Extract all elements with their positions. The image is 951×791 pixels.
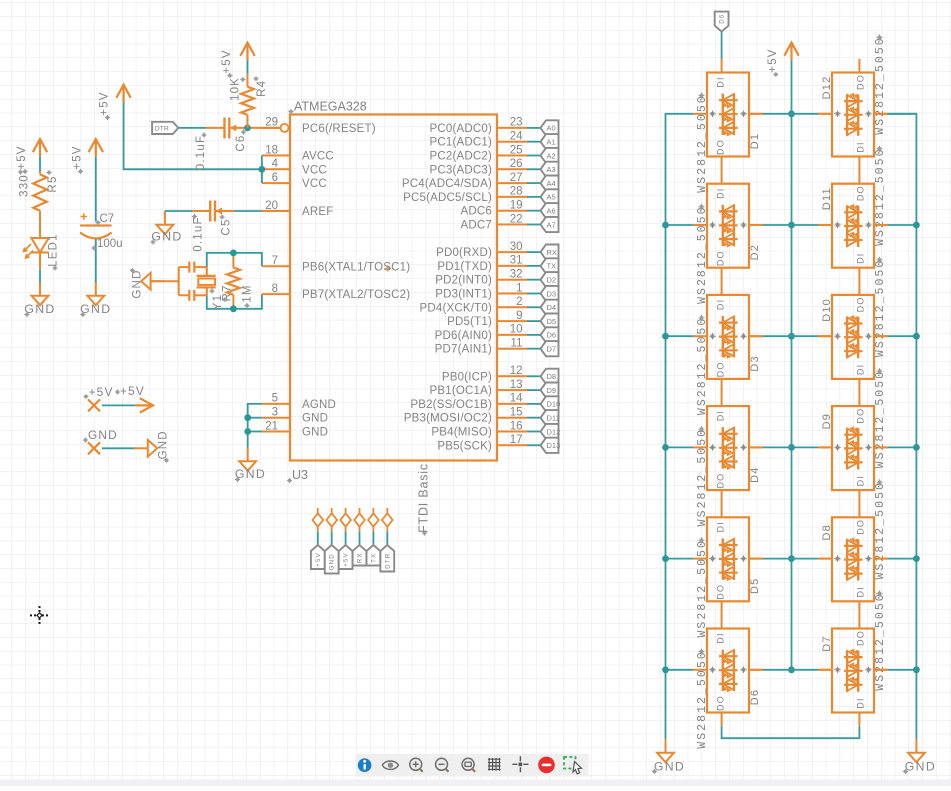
svg-text:A0: A0 xyxy=(547,124,556,133)
svg-text:2: 2 xyxy=(516,296,522,308)
svg-text:TX: TX xyxy=(370,553,377,563)
svg-text:DI: DI xyxy=(715,410,725,421)
svg-text:+5V: +5V xyxy=(99,91,111,115)
svg-text:+5V: +5V xyxy=(72,145,84,169)
svg-text:+5V: +5V xyxy=(16,145,28,169)
svg-text:ADC7: ADC7 xyxy=(461,220,492,232)
svg-text:D6: D6 xyxy=(547,331,557,340)
svg-text:GND: GND xyxy=(151,230,182,244)
svg-text:31: 31 xyxy=(510,255,523,267)
svg-text:GND: GND xyxy=(80,302,111,316)
svg-text:9: 9 xyxy=(516,310,522,322)
svg-text:11: 11 xyxy=(511,338,523,350)
svg-text:VCC: VCC xyxy=(302,164,327,176)
svg-text:DO: DO xyxy=(715,250,725,266)
svg-text:DO: DO xyxy=(855,630,865,646)
svg-text:WS2812_5050: WS2812_5050 xyxy=(874,259,887,357)
svg-text:D13: D13 xyxy=(547,441,561,450)
svg-text:PB0(ICP): PB0(ICP) xyxy=(442,371,492,383)
svg-text:D2: D2 xyxy=(547,276,557,285)
svg-text:GND: GND xyxy=(329,553,336,570)
svg-text:D3: D3 xyxy=(547,289,557,298)
svg-text:A1: A1 xyxy=(547,138,556,147)
svg-text:WS2812_5050: WS2812_5050 xyxy=(696,650,709,748)
svg-text:14: 14 xyxy=(510,393,523,405)
svg-text:D11: D11 xyxy=(821,187,833,210)
svg-text:PD0(RXD): PD0(RXD) xyxy=(436,247,492,259)
svg-text:DI: DI xyxy=(855,252,865,263)
svg-text:A6: A6 xyxy=(547,207,556,216)
svg-text:20: 20 xyxy=(265,200,278,212)
svg-text:C5: C5 xyxy=(220,218,232,235)
svg-text:AVCC: AVCC xyxy=(302,151,334,163)
svg-text:DO: DO xyxy=(855,74,865,90)
svg-text:A4: A4 xyxy=(547,179,556,188)
svg-text:DTR: DTR xyxy=(155,126,169,133)
svg-text:DO: DO xyxy=(715,361,725,377)
svg-text:PC3(ADC3): PC3(ADC3) xyxy=(429,164,492,176)
svg-text:17: 17 xyxy=(510,434,523,446)
svg-text:RX: RX xyxy=(547,248,557,257)
svg-text:LED1: LED1 xyxy=(48,233,60,267)
svg-text:100u: 100u xyxy=(97,238,123,250)
svg-text:D6: D6 xyxy=(719,13,726,23)
svg-text:DI: DI xyxy=(855,364,865,375)
svg-text:R4: R4 xyxy=(256,80,268,97)
svg-text:PB5(SCK): PB5(SCK) xyxy=(437,440,492,452)
svg-text:D10: D10 xyxy=(821,298,833,322)
svg-text:A3: A3 xyxy=(547,165,556,174)
svg-text:ATMEGA328: ATMEGA328 xyxy=(294,100,367,114)
svg-text:330: 330 xyxy=(19,174,31,197)
svg-text:WS2812_5050: WS2812_5050 xyxy=(696,539,709,637)
svg-text:12: 12 xyxy=(510,365,523,377)
svg-text:PC5(ADC5/SCL): PC5(ADC5/SCL) xyxy=(403,192,492,204)
svg-text:DO: DO xyxy=(715,473,725,489)
svg-text:WS2812_5050: WS2812_5050 xyxy=(696,205,709,303)
svg-text:DO: DO xyxy=(855,185,865,201)
svg-text:19: 19 xyxy=(510,200,523,212)
svg-text:30: 30 xyxy=(510,241,523,253)
svg-text:D12: D12 xyxy=(821,76,833,100)
svg-text:WS2812_5050: WS2812_5050 xyxy=(874,481,887,579)
svg-text:D11: D11 xyxy=(547,414,560,423)
svg-text:D1: D1 xyxy=(749,133,761,149)
svg-text:A7: A7 xyxy=(547,220,556,229)
svg-text:27: 27 xyxy=(510,172,523,184)
svg-text:DI: DI xyxy=(715,299,725,310)
svg-text:AREF: AREF xyxy=(302,206,333,218)
svg-text:A5: A5 xyxy=(547,193,556,202)
svg-text:TX: TX xyxy=(547,262,557,271)
svg-text:C7: C7 xyxy=(100,213,115,225)
svg-text:DI: DI xyxy=(715,521,725,532)
svg-text:PB7(XTAL2/TOSC2): PB7(XTAL2/TOSC2) xyxy=(302,289,410,301)
svg-text:DI: DI xyxy=(855,586,865,597)
svg-text:10: 10 xyxy=(510,324,523,336)
svg-text:PD4(XCK/T0): PD4(XCK/T0) xyxy=(420,302,493,314)
svg-text:3: 3 xyxy=(272,407,278,419)
svg-text:C6: C6 xyxy=(235,134,247,151)
svg-text:PB6(XTAL1/TOSC1): PB6(XTAL1/TOSC1) xyxy=(302,261,410,273)
svg-text:D2: D2 xyxy=(749,244,761,260)
svg-text:PD7(AIN1): PD7(AIN1) xyxy=(435,344,492,356)
svg-text:WS2812_5050: WS2812_5050 xyxy=(874,592,887,690)
svg-text:7: 7 xyxy=(272,255,278,267)
svg-text:DO: DO xyxy=(855,296,865,312)
svg-text:GND: GND xyxy=(302,413,328,425)
svg-text:D5: D5 xyxy=(547,317,557,326)
svg-text:28: 28 xyxy=(510,186,523,198)
svg-text:13: 13 xyxy=(510,379,523,391)
svg-text:RX: RX xyxy=(356,552,363,563)
svg-text:PB2(SS/OC1B): PB2(SS/OC1B) xyxy=(410,399,492,411)
svg-text:PB3(MOSI/OC2): PB3(MOSI/OC2) xyxy=(404,413,492,425)
svg-text:GND: GND xyxy=(235,467,266,481)
svg-text:WS2812_5050: WS2812_5050 xyxy=(874,147,887,245)
svg-text:DI: DI xyxy=(715,632,725,643)
svg-text:25: 25 xyxy=(510,144,523,156)
svg-text:1: 1 xyxy=(516,282,522,294)
svg-text:D6: D6 xyxy=(749,689,761,705)
svg-text:DO: DO xyxy=(715,695,725,711)
svg-text:15: 15 xyxy=(510,407,523,419)
svg-text:WS2812_5050: WS2812_5050 xyxy=(696,428,709,526)
svg-text:D8: D8 xyxy=(821,524,833,540)
svg-text:D9: D9 xyxy=(821,413,833,429)
svg-text:GND: GND xyxy=(905,759,936,773)
svg-text:ADC6: ADC6 xyxy=(461,206,492,218)
svg-text:D4: D4 xyxy=(749,466,761,482)
svg-text:GND: GND xyxy=(158,430,170,459)
svg-text:10K: 10K xyxy=(230,77,242,101)
svg-text:D7: D7 xyxy=(821,635,833,651)
svg-text:D10: D10 xyxy=(547,400,561,409)
svg-text:DO: DO xyxy=(715,139,725,155)
svg-text:4: 4 xyxy=(272,158,279,170)
svg-text:22: 22 xyxy=(510,213,523,225)
svg-text:D12: D12 xyxy=(547,427,561,436)
svg-text:R7: R7 xyxy=(221,284,233,301)
svg-text:PC1(ADC1): PC1(ADC1) xyxy=(429,137,492,149)
svg-text:+5V: +5V xyxy=(315,552,322,567)
svg-text:A2: A2 xyxy=(547,151,556,160)
svg-text:+5V: +5V xyxy=(120,384,145,398)
svg-text:R5: R5 xyxy=(47,175,59,192)
svg-text:DI: DI xyxy=(715,187,725,198)
svg-text:GND: GND xyxy=(88,428,118,442)
svg-text:PC6(/RESET): PC6(/RESET) xyxy=(302,123,376,135)
svg-text:24: 24 xyxy=(510,131,523,143)
svg-text:32: 32 xyxy=(510,269,523,281)
svg-text:GND: GND xyxy=(302,427,328,439)
svg-text:0.1uF: 0.1uF xyxy=(195,135,207,170)
svg-text:AGND: AGND xyxy=(302,399,336,411)
svg-text:D7: D7 xyxy=(547,345,557,354)
svg-text:23: 23 xyxy=(510,117,523,129)
svg-text:29: 29 xyxy=(265,117,278,129)
svg-text:21: 21 xyxy=(265,420,278,432)
svg-text:26: 26 xyxy=(510,158,523,170)
svg-text:VCC: VCC xyxy=(302,178,327,190)
svg-text:DO: DO xyxy=(715,584,725,600)
svg-text:+5V: +5V xyxy=(767,48,779,72)
svg-text:PC4(ADC4/SDA): PC4(ADC4/SDA) xyxy=(402,178,492,190)
svg-text:0.1uF: 0.1uF xyxy=(193,216,205,251)
svg-text:PD2(INT0): PD2(INT0) xyxy=(435,275,492,287)
svg-text:WS2812_5050: WS2812_5050 xyxy=(696,317,709,415)
svg-text:DI: DI xyxy=(715,76,725,87)
svg-text:GND: GND xyxy=(24,302,55,316)
svg-text:GND: GND xyxy=(131,269,143,298)
svg-text:DO: DO xyxy=(855,519,865,535)
svg-text:5: 5 xyxy=(272,393,278,405)
svg-text:WS2812_5050: WS2812_5050 xyxy=(874,36,887,134)
svg-text:+5V: +5V xyxy=(343,552,350,567)
svg-text:DI: DI xyxy=(855,475,865,486)
svg-text:DI: DI xyxy=(855,141,865,152)
svg-text:D9: D9 xyxy=(547,386,557,395)
svg-text:DO: DO xyxy=(855,408,865,424)
svg-text:D3: D3 xyxy=(749,355,761,371)
svg-text:WS2812_5050: WS2812_5050 xyxy=(874,370,887,468)
svg-text:+5V: +5V xyxy=(89,385,114,399)
svg-text:6: 6 xyxy=(272,172,278,184)
svg-text:GND: GND xyxy=(654,759,685,773)
svg-text:PD1(TXD): PD1(TXD) xyxy=(437,261,492,273)
svg-text:D5: D5 xyxy=(749,578,761,594)
svg-text:PD6(AIN0): PD6(AIN0) xyxy=(435,330,492,342)
svg-text:16: 16 xyxy=(510,420,523,432)
svg-text:PC0(ADC0): PC0(ADC0) xyxy=(429,123,492,135)
svg-text:U3: U3 xyxy=(292,468,308,482)
svg-text:DTR: DTR xyxy=(384,553,391,569)
svg-text:FTDI Basic: FTDI Basic xyxy=(417,463,431,533)
svg-text:18: 18 xyxy=(265,144,278,156)
svg-text:1M: 1M xyxy=(242,284,254,302)
svg-text:D8: D8 xyxy=(547,372,557,381)
svg-text:8: 8 xyxy=(272,283,278,295)
svg-text:WS2812_5050: WS2812_5050 xyxy=(696,94,709,192)
svg-text:PC2(ADC2): PC2(ADC2) xyxy=(429,151,492,163)
svg-text:PD5(T1): PD5(T1) xyxy=(447,316,492,328)
svg-text:DI: DI xyxy=(855,697,865,708)
svg-text:+5V: +5V xyxy=(221,49,233,73)
svg-text:D4: D4 xyxy=(547,303,557,312)
svg-text:PD3(INT1): PD3(INT1) xyxy=(435,289,492,301)
svg-text:PB1(OC1A): PB1(OC1A) xyxy=(429,385,492,397)
svg-text:PB4(MISO): PB4(MISO) xyxy=(431,427,492,439)
